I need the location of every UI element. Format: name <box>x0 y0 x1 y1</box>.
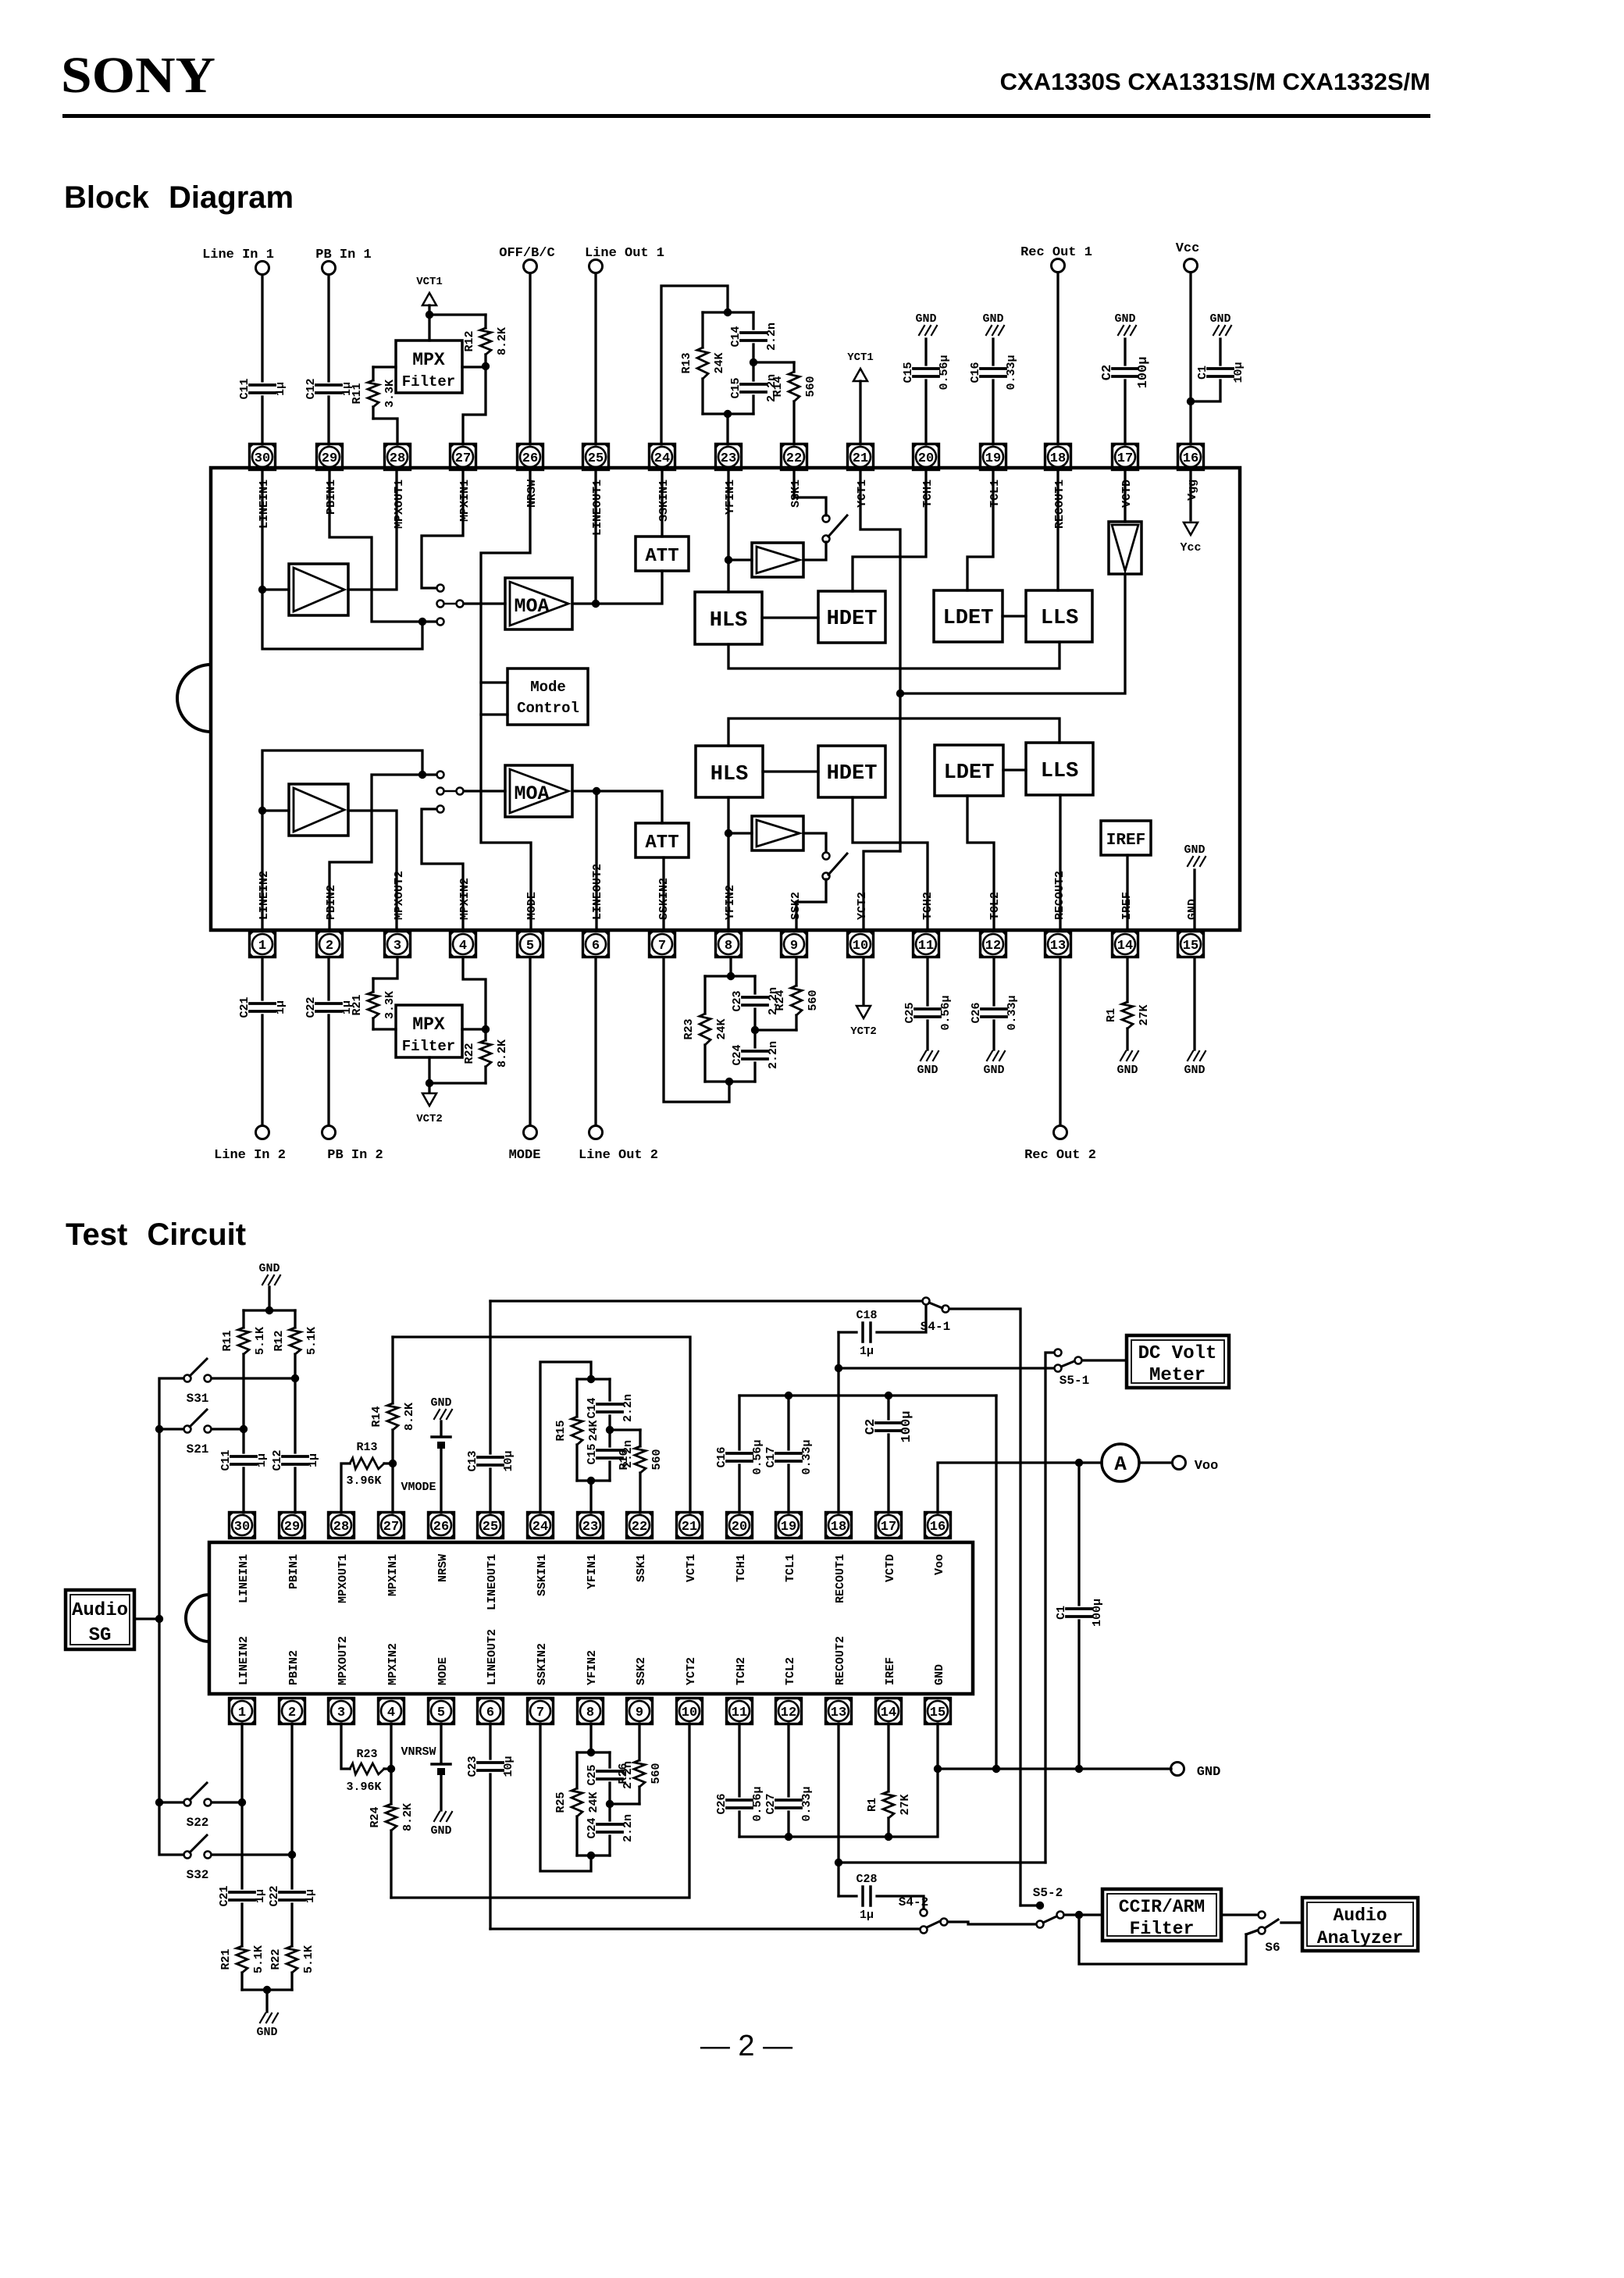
svg-text:GND: GND <box>982 312 1003 326</box>
svg-text:0.33µ: 0.33µ <box>1006 995 1019 1030</box>
svg-text:0.33µ: 0.33µ <box>1005 355 1018 390</box>
svg-text:26: 26 <box>433 1520 449 1535</box>
wire network bottom to pin 23 <box>589 1481 592 1513</box>
svg-text:LINEIN1: LINEIN1 <box>258 479 271 529</box>
input bus wire <box>159 1378 183 1855</box>
svg-text:VCT2: VCT2 <box>416 1113 443 1125</box>
svg-text:8.2K: 8.2K <box>403 1403 416 1431</box>
svg-text:C11: C11 <box>219 1449 233 1471</box>
svg-text:IREF: IREF <box>884 1657 897 1685</box>
svg-text:560: 560 <box>804 376 817 397</box>
svg-text:YFIN2: YFIN2 <box>724 885 737 920</box>
svg-text:YFIN2: YFIN2 <box>586 1650 599 1685</box>
resistor R22 8.2K <box>463 958 486 1029</box>
svg-text:LINEOUT1: LINEOUT1 <box>486 1554 499 1610</box>
VCT2 supply arrow <box>429 1082 486 1084</box>
terminal OFF/B/C <box>524 260 537 273</box>
svg-text:8: 8 <box>586 1706 594 1720</box>
selector contact b1 <box>437 585 444 592</box>
junction LINEOUT2 <box>593 787 600 795</box>
svg-text:17: 17 <box>1117 451 1133 466</box>
wire pin 16 to ammeter <box>938 1463 1102 1513</box>
ground below R1 <box>1120 1051 1126 1061</box>
svg-text:0.56µ: 0.56µ <box>751 1786 764 1821</box>
svg-text:MPXOUT2: MPXOUT2 <box>393 871 406 920</box>
pin 14 test <box>876 1699 902 1724</box>
svg-text:S4-2: S4-2 <box>899 1895 928 1909</box>
svg-text:Audio: Audio <box>1333 1905 1387 1926</box>
svg-text:0.56µ: 0.56µ <box>938 355 951 390</box>
YCT2 arrow pin 10 <box>862 958 864 1005</box>
svg-text:560: 560 <box>650 1763 663 1784</box>
wire YFIN2 to HLS2 <box>727 797 729 930</box>
svg-text:C2: C2 <box>1100 365 1115 380</box>
svg-text:CCIR/ARM: CCIR/ARM <box>1119 1897 1205 1917</box>
svg-text:R14: R14 <box>370 1406 383 1427</box>
svg-text:Voo: Voo <box>933 1554 946 1575</box>
pin 9 <box>782 932 807 957</box>
capacitor C27 0.33u test <box>787 1724 789 1796</box>
pin 23 <box>716 444 742 470</box>
switch S6 <box>1221 1913 1257 1916</box>
svg-text:MODE: MODE <box>509 1148 541 1163</box>
svg-text:1µ: 1µ <box>255 1453 269 1467</box>
pin 5 test <box>429 1699 454 1724</box>
wire pin 7 to network 2 test <box>540 1724 591 1871</box>
MPX Filter 2 <box>396 1005 462 1057</box>
svg-text:VNRSW: VNRSW <box>401 1745 436 1759</box>
svg-text:23: 23 <box>582 1520 598 1535</box>
resistor R23 3.96K test <box>341 1724 350 1769</box>
svg-text:LINEOUT1: LINEOUT1 <box>591 479 604 536</box>
svg-text:C13: C13 <box>466 1450 479 1471</box>
selector contact a2 <box>437 772 444 779</box>
svg-text:PBIN1: PBIN1 <box>325 479 338 515</box>
svg-text:C24: C24 <box>731 1044 744 1065</box>
wire LINEIN2 branch to selector 2 <box>262 750 422 811</box>
ground bus top <box>739 1394 996 1396</box>
wire R11 to pin 28 <box>373 419 397 444</box>
ground below pin 15 <box>1188 1051 1193 1061</box>
svg-text:YCT2: YCT2 <box>685 1657 698 1685</box>
pin 1 <box>250 932 276 957</box>
wire LINEIN2 to amp A2 <box>261 811 263 930</box>
capacitor C2 100u test <box>887 1435 889 1513</box>
resistor R21 5.1K test <box>240 1904 243 1946</box>
svg-text:25: 25 <box>588 451 604 466</box>
svg-text:C14: C14 <box>729 326 743 347</box>
capacitor C15 2.2n test <box>608 1430 611 1446</box>
svg-text:5: 5 <box>526 939 534 954</box>
svg-text:SSK1: SSK1 <box>789 479 803 508</box>
svg-text:3.3K: 3.3K <box>383 380 397 408</box>
amplifier A2 <box>289 784 348 836</box>
capacitor C2 100u <box>1124 339 1126 365</box>
svg-text:1: 1 <box>238 1706 246 1720</box>
svg-text:10: 10 <box>682 1706 697 1720</box>
resistor R22 5.1K test <box>290 1904 293 1946</box>
bypass wire under filter <box>1079 1915 1246 1964</box>
svg-text:R1: R1 <box>866 1798 879 1812</box>
svg-text:C15: C15 <box>586 1443 599 1464</box>
svg-text:9: 9 <box>636 1706 643 1720</box>
switch S22 <box>184 1799 191 1806</box>
resistor R24 560 <box>755 1028 796 1031</box>
svg-text:SSK1: SSK1 <box>635 1554 648 1582</box>
switch SW1 <box>823 536 830 543</box>
svg-text:30: 30 <box>255 451 270 466</box>
terminal Line In 1 <box>256 262 269 275</box>
svg-text:24: 24 <box>532 1520 548 1535</box>
wire pin 5 to MODE terminal <box>529 958 531 1125</box>
MPX Filter 1 <box>396 340 462 393</box>
buffer amplifier B2 <box>752 816 803 850</box>
pin 30 <box>250 444 276 470</box>
svg-text:24K: 24K <box>713 352 726 373</box>
svg-text:22: 22 <box>632 1520 647 1535</box>
svg-text:S5-2: S5-2 <box>1033 1886 1063 1900</box>
wire TCL2 to LDET2 <box>967 796 994 930</box>
ATT block 2 <box>636 823 689 857</box>
svg-text:GND: GND <box>430 1396 451 1410</box>
pin 16 <box>1178 444 1204 470</box>
svg-text:R12: R12 <box>272 1330 286 1351</box>
svg-text:R21: R21 <box>351 994 364 1015</box>
svg-text:Filter: Filter <box>402 373 455 390</box>
wire YFIN1 to HLS1 <box>727 469 729 592</box>
svg-text:R23: R23 <box>682 1018 696 1039</box>
svg-text:HLS: HLS <box>710 609 748 633</box>
svg-text:YCT1: YCT1 <box>856 479 869 508</box>
capacitor C24 2.2n <box>753 1030 756 1047</box>
svg-text:C15: C15 <box>902 362 915 383</box>
svg-text:18: 18 <box>1050 451 1066 466</box>
pin 17 <box>1113 444 1138 470</box>
svg-text:RECOUT1: RECOUT1 <box>834 1554 847 1603</box>
ground below C26 <box>987 1051 992 1061</box>
svg-text:S6: S6 <box>1265 1941 1280 1955</box>
buffer amplifier B1 <box>752 543 803 577</box>
wire TCH2 to HDET2 <box>853 797 928 930</box>
resistor R12 5.1K <box>294 1310 296 1328</box>
svg-text:C11: C11 <box>238 378 251 399</box>
svg-text:21: 21 <box>682 1520 697 1535</box>
LLS block 1 <box>1026 590 1092 642</box>
svg-text:5.1K: 5.1K <box>254 1327 267 1355</box>
wire S4-1 to right bus <box>949 1309 1020 1905</box>
pin 10 test <box>677 1699 703 1724</box>
capacitor C25 0.56u <box>926 958 928 1005</box>
Mode Control block <box>507 668 588 725</box>
capacitor C12 1u test <box>283 1455 308 1458</box>
svg-text:10µ: 10µ <box>502 1756 515 1777</box>
svg-text:16: 16 <box>930 1520 946 1535</box>
GND line and terminal <box>938 1724 1171 1769</box>
svg-text:2.2n: 2.2n <box>767 1041 780 1069</box>
pin 30 test <box>230 1513 255 1538</box>
svg-text:A: A <box>1114 1453 1127 1476</box>
svg-text:7: 7 <box>536 1706 544 1720</box>
HLS block 1 <box>695 592 762 644</box>
pin 20 test <box>727 1513 753 1538</box>
svg-text:VMODE: VMODE <box>401 1481 436 1494</box>
svg-text:S5-1: S5-1 <box>1060 1374 1089 1388</box>
svg-text:R13: R13 <box>680 352 693 373</box>
svg-text:Line In 1: Line In 1 <box>202 248 274 262</box>
svg-text:1: 1 <box>258 939 266 954</box>
svg-text:TCL2: TCL2 <box>784 1657 797 1685</box>
pin 15 test <box>925 1699 951 1724</box>
svg-text:30: 30 <box>234 1520 250 1535</box>
svg-text:R1: R1 <box>1105 1008 1118 1022</box>
svg-text:GND: GND <box>1209 312 1230 326</box>
svg-text:20: 20 <box>732 1520 747 1535</box>
wire pin 8 to network 2 <box>729 958 732 976</box>
IC notch test circuit <box>186 1595 209 1642</box>
svg-text:C24: C24 <box>586 1817 599 1838</box>
svg-text:C12: C12 <box>271 1449 284 1471</box>
svg-text:NRSW: NRSW <box>525 479 539 508</box>
ground below R21 R22 <box>265 1990 268 2012</box>
svg-text:S21: S21 <box>187 1442 209 1456</box>
svg-text:R12: R12 <box>463 330 476 351</box>
switch S21 <box>184 1426 191 1433</box>
svg-text:Filter: Filter <box>1130 1919 1195 1939</box>
svg-text:R14: R14 <box>771 376 785 397</box>
wire LINEOUT2 line to S4-2 <box>490 1927 920 1930</box>
wire buffer B1 to switch SW1 <box>803 542 826 560</box>
wire YCT2 to bus <box>864 851 900 930</box>
svg-text:R11: R11 <box>351 383 364 404</box>
pin 27 test <box>379 1513 404 1538</box>
svg-text:C27: C27 <box>764 1793 778 1814</box>
wire LINEOUT1 <box>594 469 597 604</box>
terminal PB In 1 <box>322 262 336 275</box>
pin 4 test <box>379 1699 404 1724</box>
svg-text:SSKIN2: SSKIN2 <box>536 1643 549 1685</box>
capacitor C22 1u test <box>290 1724 293 1888</box>
wire Audio SG to bus <box>134 1617 159 1620</box>
pin 11 <box>913 932 939 957</box>
wire Mode Control bus <box>481 469 531 930</box>
svg-text:13: 13 <box>831 1706 846 1720</box>
capacitor C17 0.33u test <box>787 1465 789 1513</box>
svg-text:560: 560 <box>807 989 820 1011</box>
wire pin18 to S5-1 <box>839 1367 1053 1369</box>
svg-text:C26: C26 <box>715 1793 728 1814</box>
svg-text:MPXIN1: MPXIN1 <box>458 479 472 522</box>
wire HLS2-HDET2 <box>763 770 818 772</box>
svg-text:C12: C12 <box>304 378 318 399</box>
terminal Line In 2 <box>256 1126 269 1139</box>
svg-text:13: 13 <box>1050 939 1066 954</box>
pin 5 <box>518 932 543 957</box>
svg-text:10µ: 10µ <box>502 1450 515 1471</box>
switch S31 <box>184 1375 191 1382</box>
svg-text:3.96K: 3.96K <box>346 1474 381 1488</box>
wire pin 13 to Rec Out 2 <box>1059 958 1061 1125</box>
svg-text:20: 20 <box>918 451 934 466</box>
wire RECOUT2 riser to S5-1 <box>1045 1353 1053 1863</box>
svg-text:GND: GND <box>258 1262 280 1275</box>
wire MOA1 out to ATT1 <box>572 571 662 604</box>
svg-text:TCH1: TCH1 <box>921 479 935 508</box>
pin 12 test <box>776 1699 802 1724</box>
switch S5-1 <box>1055 1349 1062 1356</box>
pin 20 <box>913 444 939 470</box>
pin 21 <box>848 444 874 470</box>
svg-text:GND: GND <box>1114 312 1135 326</box>
svg-text:4: 4 <box>387 1706 395 1720</box>
pin 18 test <box>826 1513 852 1538</box>
svg-text:MPXIN1: MPXIN1 <box>386 1554 400 1596</box>
svg-text:— 2 —: — 2 — <box>700 2030 792 2062</box>
wire MOA2 out to ATT2 <box>572 791 662 823</box>
wire RECOUT2 to LLS2 <box>1059 795 1061 930</box>
svg-text:100µ: 100µ <box>1091 1599 1104 1627</box>
wire selector to MOA 1 <box>464 602 505 604</box>
Audio SG box <box>66 1590 134 1649</box>
svg-text:24: 24 <box>654 451 670 466</box>
svg-text:RECOUT2: RECOUT2 <box>834 1636 847 1685</box>
R21 R22 bottom bar <box>242 1988 292 1991</box>
svg-text:2.2n: 2.2n <box>765 323 778 351</box>
svg-text:R24: R24 <box>774 989 787 1011</box>
terminal Voo <box>1139 1461 1172 1463</box>
svg-text:24K: 24K <box>587 1420 600 1441</box>
wire LDET2-LLS2 <box>1003 768 1026 771</box>
svg-text:VCTD: VCTD <box>1120 479 1134 508</box>
svg-text:C18: C18 <box>856 1309 877 1322</box>
capacitor C14 2.2n test <box>608 1379 611 1400</box>
resistor R14 560 <box>753 361 794 363</box>
capacitor C15 0.56u <box>924 339 927 365</box>
svg-text:Rec Out 1: Rec Out 1 <box>1020 245 1092 260</box>
pin 15 <box>1178 932 1204 957</box>
capacitor C26 0.33u <box>992 958 995 1005</box>
LDET block 1 <box>934 590 1003 642</box>
pin 28 <box>385 444 411 470</box>
svg-text:GND: GND <box>1184 843 1205 857</box>
pin 2 test <box>280 1699 305 1724</box>
capacitor C15 2.2n <box>752 362 754 380</box>
switch S4-2 <box>921 1909 928 1916</box>
svg-text:SONY: SONY <box>61 47 215 104</box>
pin 6 <box>583 932 609 957</box>
svg-text:VCT1: VCT1 <box>685 1554 698 1582</box>
svg-text:GND: GND <box>983 1064 1004 1077</box>
svg-text:C14: C14 <box>586 1397 599 1418</box>
capacitor C1 10u <box>1219 339 1221 365</box>
wire Vcc to pin 16 <box>1189 273 1191 444</box>
pin 21 test <box>677 1513 703 1538</box>
pin 24 test <box>528 1513 554 1538</box>
svg-text:14: 14 <box>881 1706 896 1720</box>
pin 10 <box>848 932 874 957</box>
resistor R13 24K <box>703 311 753 313</box>
svg-text:22: 22 <box>786 451 802 466</box>
svg-text:SSKIN1: SSKIN1 <box>657 479 671 522</box>
svg-text:YCT2: YCT2 <box>850 1025 877 1038</box>
svg-text:1µ: 1µ <box>304 1889 317 1903</box>
wire amp A1 out to pin 28 <box>348 469 397 590</box>
svg-text:C23: C23 <box>731 990 744 1011</box>
svg-text:27K: 27K <box>899 1794 912 1815</box>
svg-text:11: 11 <box>732 1706 747 1720</box>
svg-text:SG: SG <box>89 1625 112 1646</box>
svg-text:Control: Control <box>517 700 579 717</box>
capacitor C22 1u <box>327 958 329 1000</box>
pin 4 <box>451 932 476 957</box>
wire pin 24 to network top <box>540 1362 591 1513</box>
capacitor C23 2.2n <box>753 976 756 993</box>
svg-text:Vcc: Vcc <box>1176 241 1200 256</box>
pin 26 test <box>429 1513 454 1538</box>
resistor R16 560 <box>610 1428 640 1431</box>
svg-text:R24: R24 <box>369 1806 382 1827</box>
svg-text:S22: S22 <box>187 1816 209 1830</box>
svg-text:R25: R25 <box>554 1791 568 1813</box>
wire TCH1 to HDET1 <box>853 469 926 591</box>
svg-text:Block Diagram: Block Diagram <box>64 180 294 215</box>
ground bus right vertical <box>995 1396 997 1769</box>
pin 29 <box>317 444 343 470</box>
svg-text:14: 14 <box>1117 939 1133 954</box>
svg-text:19: 19 <box>781 1520 796 1535</box>
svg-text:GND: GND <box>1186 899 1199 920</box>
svg-text:Line Out 1: Line Out 1 <box>585 246 664 261</box>
svg-text:MPXIN2: MPXIN2 <box>386 1643 400 1685</box>
svg-text:Analyzer: Analyzer <box>1317 1928 1403 1948</box>
svg-text:GND: GND <box>1116 1064 1138 1077</box>
pin 8 <box>716 932 742 957</box>
pin 26 <box>518 444 543 470</box>
svg-text:C17: C17 <box>764 1446 778 1467</box>
pin 13 test <box>826 1699 852 1724</box>
amplifier A1 <box>289 564 348 615</box>
svg-text:9: 9 <box>790 939 798 954</box>
wire SSK2 to switch SW2 <box>796 879 826 930</box>
wire amp A2 out to pin 3 <box>348 811 397 930</box>
IREF block <box>1101 821 1151 855</box>
pin 3 <box>385 932 411 957</box>
capacitor C11 1u <box>261 275 263 381</box>
svg-text:27K: 27K <box>1138 1004 1151 1025</box>
svg-text:C28: C28 <box>856 1873 877 1886</box>
svg-text:R22: R22 <box>463 1043 476 1064</box>
svg-text:26: 26 <box>522 451 538 466</box>
svg-text:12: 12 <box>985 939 1001 954</box>
resistor R14 8.2K test <box>391 1337 394 1403</box>
svg-text:29: 29 <box>284 1520 300 1535</box>
svg-text:11: 11 <box>918 939 934 954</box>
svg-text:6: 6 <box>486 1706 494 1720</box>
pin 25 test <box>478 1513 504 1538</box>
svg-text:C16: C16 <box>969 362 982 383</box>
pin 1 test <box>230 1699 255 1724</box>
wire LINEOUT2 <box>595 791 597 930</box>
svg-text:C25: C25 <box>586 1764 599 1785</box>
svg-text:24K: 24K <box>587 1791 600 1813</box>
terminal MODE <box>524 1126 537 1139</box>
CCIR/ARM Filter box <box>1102 1889 1221 1941</box>
capacitor C1 100u test <box>1077 1463 1080 1605</box>
svg-text:LINEIN2: LINEIN2 <box>258 871 271 920</box>
svg-text:MOA: MOA <box>514 595 549 618</box>
pin 7 test <box>528 1699 554 1724</box>
wire pin 8 to network 2 test <box>589 1724 592 1752</box>
svg-text:MPX: MPX <box>412 1014 445 1035</box>
